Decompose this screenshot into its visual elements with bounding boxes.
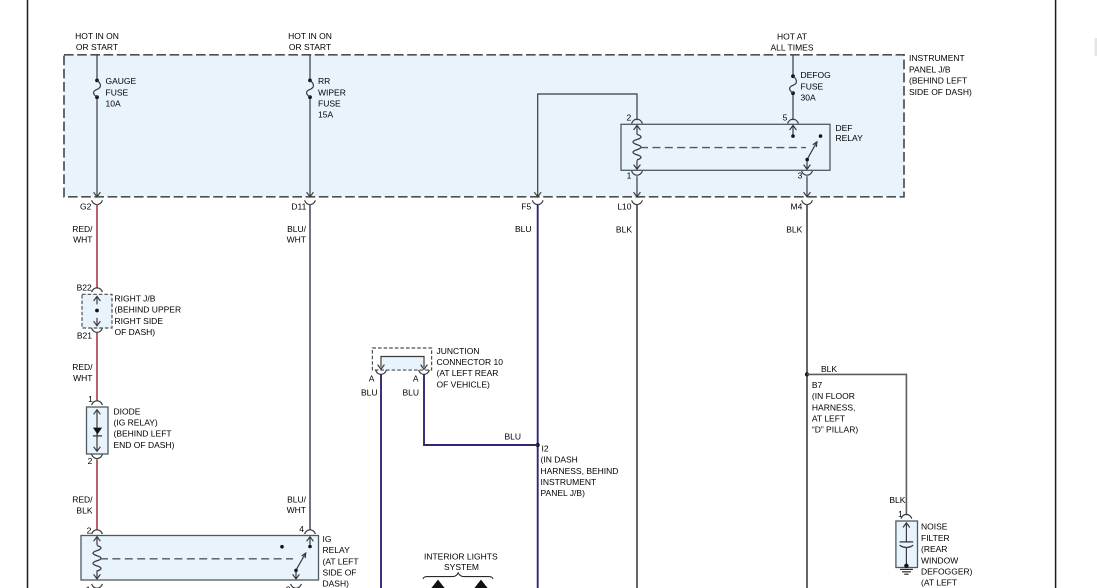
pin 2 terminal arc (IG relay) xyxy=(92,530,103,534)
frame: left border line xyxy=(27,0,29,588)
svg-text:A: A xyxy=(369,373,375,383)
relay switch arm (DEF relay) xyxy=(807,142,817,159)
svg-text:RR: RR xyxy=(318,76,330,86)
diode D1 (IG relay diode) box xyxy=(87,407,109,454)
wire: BLU/WHT from D11 to IG relay pin 4 xyxy=(309,204,311,530)
svg-text:BLK: BLK xyxy=(889,495,905,505)
fuse GAUGE FUSE 10A xyxy=(94,79,101,100)
svg-text:NOISE: NOISE xyxy=(921,522,948,532)
svg-text:2: 2 xyxy=(626,112,631,122)
relay common contact arrow (pin 5) xyxy=(792,125,794,134)
svg-text:WHT: WHT xyxy=(287,505,306,515)
noise filter box xyxy=(896,521,918,568)
svg-text:OF VEHICLE): OF VEHICLE) xyxy=(437,379,491,389)
svg-text:SYSTEM: SYSTEM xyxy=(444,562,479,572)
label: NOISE FILTER (REAR WINDOW DEFOGGER) (AT LEFT “D” PILLAR) xyxy=(921,522,973,588)
pin 3 terminal arc (DEF relay) xyxy=(802,171,813,175)
pin 1 terminal arc (DEF relay) xyxy=(632,171,643,175)
label: B7 (IN FLOOR HARNESS, AT LEFT “D” PILLAR) xyxy=(812,380,858,435)
IG relay coil arrow up xyxy=(96,537,98,546)
node I2 junction dot xyxy=(536,443,540,447)
relay coil arrow up (pin 2 side) xyxy=(636,125,638,134)
label: RED/WHT (B21 wire) xyxy=(72,362,93,383)
svg-text:B21: B21 xyxy=(77,331,92,341)
svg-text:DIODE: DIODE xyxy=(114,406,141,416)
faint scroll mark at right edge xyxy=(1095,38,1097,56)
diode symbol xyxy=(93,428,102,435)
svg-text:BLK: BLK xyxy=(786,224,802,234)
wire: BLK branch from B7 to noise filter xyxy=(807,374,906,515)
svg-text:1: 1 xyxy=(88,394,93,404)
svg-text:1: 1 xyxy=(86,584,91,588)
frame: right border line xyxy=(1055,0,1057,588)
wire: RED/WHT from G2 to B22 xyxy=(96,204,98,288)
label: GAUGE FUSE 10A xyxy=(106,76,137,108)
svg-text:SIDE OF DASH): SIDE OF DASH) xyxy=(909,87,972,97)
svg-text:F5: F5 xyxy=(521,202,531,212)
relay switch arrow down to pin 3 xyxy=(806,161,808,169)
label: RED/BLK xyxy=(72,495,93,516)
pin A terminal arc (right) xyxy=(419,370,430,374)
pin 2 terminal arc (IG relay bottom) xyxy=(291,584,302,588)
svg-text:2: 2 xyxy=(87,526,92,536)
wire: feed into DEFOG fuse xyxy=(792,55,794,74)
svg-text:HOT AT: HOT AT xyxy=(777,31,807,41)
label: INTERIOR LIGHTS SYSTEM xyxy=(424,551,498,572)
svg-text:10A: 10A xyxy=(106,98,121,108)
svg-text:RIGHT J/B: RIGHT J/B xyxy=(115,294,156,304)
svg-text:(AT LEFT: (AT LEFT xyxy=(921,578,957,588)
wire: RR wiper fuse to D11 with exit arrow xyxy=(309,99,311,197)
svg-text:RED/: RED/ xyxy=(72,362,93,372)
svg-text:G2: G2 xyxy=(80,202,92,212)
svg-text:DEFOG: DEFOG xyxy=(801,70,831,80)
svg-text:FUSE: FUSE xyxy=(106,87,129,97)
ground symbol xyxy=(900,568,913,570)
svg-text:WHT: WHT xyxy=(73,235,92,245)
svg-text:FUSE: FUSE xyxy=(318,98,341,108)
off-page arrow triangle (left) xyxy=(431,580,446,588)
svg-text:BLU: BLU xyxy=(361,387,378,397)
pin 1 terminal arc (noise filter) xyxy=(901,514,912,518)
svg-text:1: 1 xyxy=(627,170,632,180)
relay fixed contact dot (DEF relay) xyxy=(819,134,823,138)
svg-text:DEF: DEF xyxy=(836,123,853,133)
connector M4 terminal xyxy=(802,200,813,204)
wire: BLU from right pin A to I2 xyxy=(424,374,538,445)
svg-text:BLK: BLK xyxy=(616,224,632,234)
svg-text:BLU/: BLU/ xyxy=(287,495,307,505)
svg-text:INSTRUMENT: INSTRUMENT xyxy=(909,53,965,63)
label: DEF RELAY xyxy=(836,123,864,143)
svg-text:BLU/: BLU/ xyxy=(287,224,307,234)
relay coil arrow down (pin 1 side) xyxy=(636,160,638,169)
wire: feed into GAUGE fuse xyxy=(96,55,98,79)
svg-text:FUSE: FUSE xyxy=(801,81,824,91)
svg-text:BLU: BLU xyxy=(515,224,532,234)
connector L10 terminal xyxy=(632,200,643,204)
label: IG RELAY (AT LEFT SIDE OF DASH) xyxy=(323,534,359,588)
relay DEF RELAY box xyxy=(621,124,830,170)
svg-text:L10: L10 xyxy=(617,202,631,212)
pin A terminal arc (left) xyxy=(376,370,387,374)
svg-text:HOT IN ON: HOT IN ON xyxy=(288,31,332,41)
svg-text:RED/: RED/ xyxy=(72,495,93,505)
capacitor C1 curved plate xyxy=(900,545,914,547)
wire: relay pin 2 up-over-down to F5 with exit arrow xyxy=(538,94,637,197)
net label: HOT AT ALL TIMES (defog fuse feed) xyxy=(771,31,814,52)
label: RED/WHT (G2 wire) xyxy=(72,224,93,245)
pin 4 terminal arc (IG relay) xyxy=(305,530,316,534)
svg-text:BLK: BLK xyxy=(76,505,92,515)
wire: BLK from L10 down off-page xyxy=(636,204,638,588)
svg-text:RELAY: RELAY xyxy=(323,545,351,555)
svg-text:FILTER: FILTER xyxy=(921,533,950,543)
connector D11 terminal xyxy=(305,200,316,204)
diode internal arrow down xyxy=(94,447,101,452)
connector B22 terminal arc xyxy=(92,288,103,292)
connector G2 terminal xyxy=(92,200,103,204)
wire: defog fuse to relay pin 5 xyxy=(792,95,794,120)
svg-text:(REAR: (REAR xyxy=(921,544,947,554)
IG relay switch arrow down xyxy=(295,571,297,579)
label: INSTRUMENT PANEL J/B (BEHIND LEFT SIDE OF DASH) xyxy=(909,53,972,97)
node B7 junction dot xyxy=(805,372,809,376)
junction block RIGHT J/B box (dashed) xyxy=(82,294,112,328)
wire: RED/BLK from diode to IG relay pin 2 xyxy=(96,459,98,529)
svg-text:HOT IN ON: HOT IN ON xyxy=(75,31,119,41)
svg-text:A: A xyxy=(413,373,419,383)
svg-text:INTERIOR LIGHTS: INTERIOR LIGHTS xyxy=(424,551,498,561)
pin 1 terminal arc (IG relay) xyxy=(92,584,103,588)
svg-text:DEFOGGER): DEFOGGER) xyxy=(921,567,973,577)
wire: feed into RR WIPER fuse xyxy=(309,55,311,79)
brace over off-page arrows xyxy=(423,573,493,579)
svg-text:JUNCTION: JUNCTION xyxy=(437,346,480,356)
junction connector 10 box (dashed) xyxy=(372,348,431,370)
IG relay switch arm xyxy=(296,553,306,570)
pin 2 terminal arc (diode) xyxy=(92,454,103,458)
net label: HOT IN ON OR START (RR wiper fuse feed) xyxy=(288,31,332,52)
fuse RR WIPER FUSE 15A xyxy=(307,79,314,100)
relay internal dashed link xyxy=(640,147,806,149)
svg-text:(AT LEFT REAR: (AT LEFT REAR xyxy=(437,368,499,378)
svg-text:END OF DASH): END OF DASH) xyxy=(114,440,175,450)
svg-text:2: 2 xyxy=(88,456,93,466)
diode internal wire xyxy=(96,410,98,451)
svg-text:DASH): DASH) xyxy=(323,579,350,588)
svg-text:B22: B22 xyxy=(77,283,92,293)
svg-text:M4: M4 xyxy=(790,202,802,212)
svg-text:5: 5 xyxy=(783,113,788,123)
junction connector fill xyxy=(382,357,423,370)
relay coil K1 (DEF relay) xyxy=(633,134,641,160)
pin 2 terminal arc (DEF relay) xyxy=(632,119,643,123)
label: DEFOG FUSE 30A xyxy=(801,70,831,102)
wire: gauge fuse to G2 with exit arrow xyxy=(96,99,98,197)
svg-text:GAUGE: GAUGE xyxy=(106,76,137,86)
svg-text:RED/: RED/ xyxy=(72,224,93,234)
label: DIODE (IG RELAY) (BEHIND LEFT END OF DASH) xyxy=(114,406,175,450)
noise filter internal arrow up xyxy=(905,523,907,531)
svg-text:BLU: BLU xyxy=(402,387,419,397)
junction connector internal bridge wire xyxy=(381,357,424,368)
IG relay internal dashed link xyxy=(100,558,293,560)
pin 1 terminal arc (diode) xyxy=(92,401,103,405)
wire: relay pin 3 to M4 with exit arrow xyxy=(806,176,808,196)
svg-text:D11: D11 xyxy=(291,202,306,212)
label: BLU/WHT (upper) xyxy=(287,224,307,245)
svg-text:(BEHIND LEFT: (BEHIND LEFT xyxy=(909,76,967,86)
instrument panel J/B box (dashed, light blue) xyxy=(64,55,904,197)
svg-text:15A: 15A xyxy=(318,110,333,120)
svg-text:OF DASH): OF DASH) xyxy=(115,327,156,337)
svg-text:CONNECTOR 10: CONNECTOR 10 xyxy=(437,357,504,367)
wire: BLU from F5 down off-page xyxy=(537,204,539,588)
svg-text:(IN FLOOR: (IN FLOOR xyxy=(812,391,855,401)
noise filter ground dot xyxy=(904,564,908,568)
right J/B internal arrow down xyxy=(96,318,98,326)
relay IG RELAY box xyxy=(81,536,319,581)
svg-text:AT LEFT: AT LEFT xyxy=(812,414,845,424)
svg-text:BLU: BLU xyxy=(504,431,521,441)
label: JUNCTION CONNECTOR 10 (AT LEFT REAR OF VEHICLE) xyxy=(437,346,504,390)
svg-text:SIDE OF: SIDE OF xyxy=(323,568,357,578)
IG relay coil arrow down xyxy=(96,570,98,579)
svg-text:I2: I2 xyxy=(542,443,549,453)
svg-text:30A: 30A xyxy=(801,93,816,103)
label: I2 (IN DASH HARNESS, BEHIND INSTRUMENT PANEL J/B) xyxy=(541,443,619,498)
wire: RED/WHT from B21 to diode pin 1 xyxy=(96,333,98,401)
svg-text:PANEL J/B: PANEL J/B xyxy=(909,64,951,74)
svg-text:ALL TIMES: ALL TIMES xyxy=(771,42,814,52)
relay coil K2 (IG relay) xyxy=(93,546,101,571)
svg-text:WHT: WHT xyxy=(73,373,92,383)
svg-text:RELAY: RELAY xyxy=(836,133,864,143)
off-page arrow triangle (right) xyxy=(474,580,489,588)
capacitor C1 top plate xyxy=(900,541,914,543)
svg-text:“D” PILLAR): “D” PILLAR) xyxy=(812,425,858,435)
right J/B internal arrow up xyxy=(96,296,98,304)
diode internal arrow up xyxy=(94,410,101,415)
label: BLU/WHT (lower) xyxy=(287,495,307,515)
svg-text:IG: IG xyxy=(323,534,332,544)
wire: BLU from left pin A down off-page xyxy=(380,374,382,588)
label: RR WIPER FUSE 15A xyxy=(318,76,346,119)
IG relay common contact arrow (pin 4) xyxy=(309,537,311,545)
svg-text:HARNESS,: HARNESS, xyxy=(812,402,855,412)
svg-text:PANEL J/B): PANEL J/B) xyxy=(541,488,586,498)
svg-text:(BEHIND LEFT: (BEHIND LEFT xyxy=(114,429,172,439)
svg-text:4: 4 xyxy=(299,524,304,534)
noise filter internal wire lower xyxy=(905,548,907,566)
wire: relay pin 1 to L10 with exit arrow xyxy=(636,176,638,196)
svg-text:WHT: WHT xyxy=(287,235,306,245)
svg-text:WINDOW: WINDOW xyxy=(921,555,958,565)
connector F5 terminal xyxy=(532,200,543,204)
svg-text:B7: B7 xyxy=(812,380,823,390)
svg-text:OR START: OR START xyxy=(289,42,331,52)
svg-text:WIPER: WIPER xyxy=(318,87,346,97)
label: RIGHT J/B (BEHIND UPPER RIGHT SIDE OF DASH) xyxy=(115,294,182,338)
svg-text:HARNESS, BEHIND: HARNESS, BEHIND xyxy=(541,466,619,476)
connector B21 terminal arc xyxy=(92,328,103,332)
svg-text:(BEHIND UPPER: (BEHIND UPPER xyxy=(115,305,182,315)
pin 5 terminal arc (DEF relay) xyxy=(788,119,799,123)
svg-text:RIGHT SIDE: RIGHT SIDE xyxy=(115,316,164,326)
svg-text:(IN DASH: (IN DASH xyxy=(541,455,578,465)
wire: BLK from M4 down off-page xyxy=(806,204,808,588)
svg-text:2: 2 xyxy=(286,584,291,588)
fuse DEFOG FUSE 30A xyxy=(790,74,797,95)
svg-text:OR START: OR START xyxy=(76,42,118,52)
net label: HOT IN ON OR START (gauge fuse feed) xyxy=(75,31,119,52)
svg-text:BLK: BLK xyxy=(821,364,837,374)
svg-text:(AT LEFT: (AT LEFT xyxy=(323,556,359,566)
svg-text:INSTRUMENT: INSTRUMENT xyxy=(541,477,597,487)
IG relay fixed contact dot (NC) xyxy=(280,545,284,549)
noise filter internal wire upper xyxy=(905,531,907,542)
svg-text:(IG RELAY): (IG RELAY) xyxy=(114,418,158,428)
